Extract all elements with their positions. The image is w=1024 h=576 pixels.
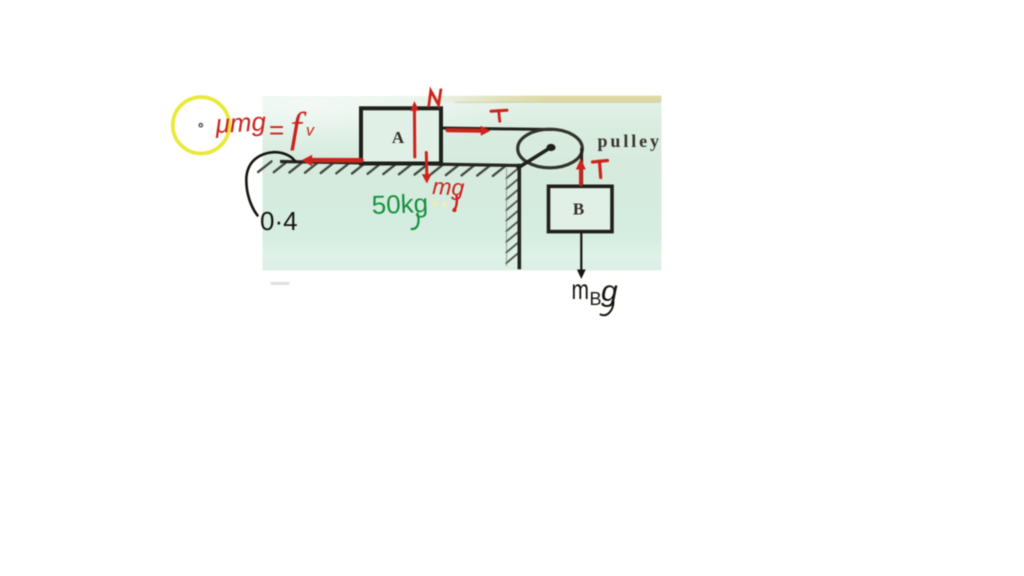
svg-text:v: v — [306, 123, 315, 140]
svg-text:μmg: μmg — [214, 106, 267, 139]
svg-text:mg: mg — [432, 173, 465, 201]
svg-text:g: g — [601, 275, 618, 308]
svg-text:B: B — [590, 289, 602, 309]
svg-text:50kg: 50kg — [371, 188, 428, 220]
svg-text:pulley: pulley — [598, 131, 662, 151]
svg-text:B: B — [573, 200, 584, 219]
svg-text:m: m — [572, 275, 589, 306]
svg-text:=: = — [269, 115, 284, 145]
svg-text:0·4: 0·4 — [260, 206, 298, 236]
svg-text:A: A — [392, 128, 405, 147]
